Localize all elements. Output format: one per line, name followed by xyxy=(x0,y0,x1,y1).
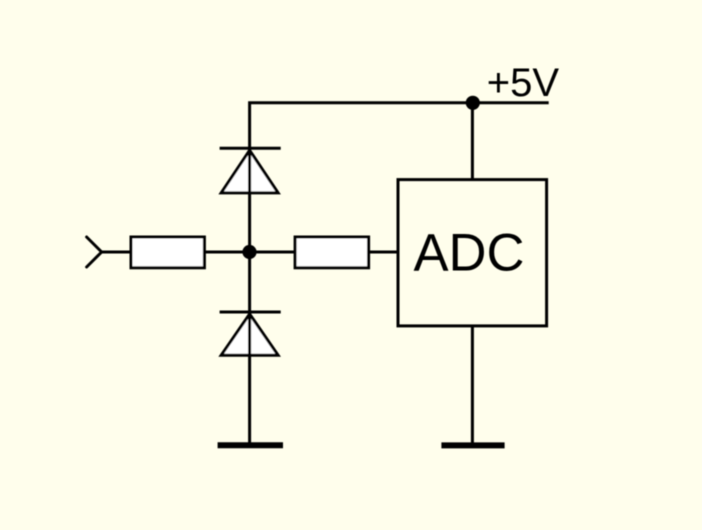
resistor R1 xyxy=(131,237,204,268)
ADC block U1 xyxy=(398,180,547,326)
wire rail to ADC top pin xyxy=(471,103,474,180)
diode D1 cathode bar xyxy=(220,147,281,150)
diode D2 cathode bar xyxy=(220,311,281,314)
diode D1 triangle (clamp to +5V) xyxy=(221,150,278,193)
wire vertical through D1, node A, D2 down to ground xyxy=(248,148,251,445)
wire R1 to R2 through node A xyxy=(204,251,295,254)
ground symbol GND1 xyxy=(218,442,283,448)
svg-text:ADC: ADC xyxy=(413,223,524,282)
wire ADC bottom pin to ground xyxy=(471,326,474,445)
diode D2 triangle (clamp to ground) xyxy=(221,314,278,355)
wire R2 to ADC input xyxy=(369,251,398,254)
node B junction dot on rail xyxy=(466,96,480,110)
node A junction dot xyxy=(242,245,256,259)
wire +5V rail with corner xyxy=(250,103,549,149)
input connector J1 (chevron) xyxy=(87,237,102,267)
resistor R2 xyxy=(295,237,369,268)
wire input to R1 xyxy=(102,251,131,254)
ground symbol GND2 xyxy=(441,442,504,448)
svg-text:+5V: +5V xyxy=(487,61,560,105)
